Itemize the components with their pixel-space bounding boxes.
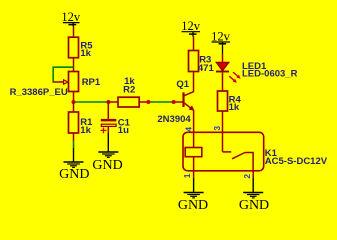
power terminal 12v (left) bbox=[61, 10, 81, 27]
power terminal 12v (middle) bbox=[181, 19, 201, 36]
wire R4 to relay pin 3 bbox=[222, 111, 224, 152]
power terminal 12v (right) bbox=[211, 30, 231, 54]
ground (relay pin 1) bbox=[178, 178, 208, 213]
ground (C1) bbox=[92, 133, 122, 173]
svg-text:4: 4 bbox=[183, 127, 193, 132]
svg-text:GND: GND bbox=[59, 167, 89, 182]
wire 12v to LED1 bbox=[222, 54, 224, 63]
resistor R2 bbox=[118, 76, 139, 107]
svg-text:GND: GND bbox=[92, 158, 122, 173]
svg-text:2N3904: 2N3904 bbox=[157, 114, 191, 125]
resistor R4 bbox=[218, 91, 242, 113]
svg-text:RP1: RP1 bbox=[82, 77, 101, 88]
LED LED1 bbox=[216, 61, 298, 83]
wire main horizontal net bbox=[74, 101, 184, 103]
transistor Q1 bbox=[157, 72, 194, 126]
ground (relay pin 2) bbox=[239, 178, 269, 213]
ground (R1) bbox=[59, 148, 89, 182]
wire C1 to ground bbox=[107, 126, 109, 133]
svg-text:12v: 12v bbox=[61, 10, 81, 24]
resistor R3 bbox=[189, 51, 215, 75]
wire R5 to RP1 bbox=[73, 58, 75, 72]
wire relay pin 2 to ground bbox=[252, 171, 254, 178]
wire R1 to ground bbox=[73, 133, 75, 148]
svg-text:R2: R2 bbox=[123, 84, 135, 95]
svg-text:1: 1 bbox=[182, 173, 192, 178]
svg-text:1u: 1u bbox=[118, 125, 129, 136]
resistor R1 bbox=[69, 102, 94, 136]
svg-text:AC5-S-DC12V: AC5-S-DC12V bbox=[265, 156, 328, 167]
resistor R5 bbox=[69, 37, 94, 59]
svg-text:1k: 1k bbox=[80, 48, 91, 59]
svg-text:GND: GND bbox=[239, 198, 269, 213]
node A junction dots bbox=[72, 100, 176, 104]
wire LED1 to R4 bbox=[222, 72, 224, 91]
svg-text:LED-0603_R: LED-0603_R bbox=[242, 69, 298, 80]
wire relay pin 1 to ground bbox=[193, 171, 195, 178]
svg-text:471: 471 bbox=[198, 63, 215, 74]
relay K1 bbox=[183, 110, 328, 171]
potentiometer RP1 bbox=[10, 72, 101, 99]
svg-text:1k: 1k bbox=[229, 102, 240, 113]
svg-text:1k: 1k bbox=[80, 125, 91, 136]
wire 12v to R3 bbox=[193, 37, 195, 51]
svg-text:R_3386P_EU: R_3386P_EU bbox=[10, 87, 68, 98]
svg-text:3: 3 bbox=[212, 126, 222, 131]
svg-text:Q1: Q1 bbox=[176, 79, 189, 90]
svg-text:GND: GND bbox=[178, 198, 208, 213]
svg-text:2: 2 bbox=[242, 174, 252, 179]
wire RP1 to node A bbox=[73, 92, 75, 103]
wire wiper loop (green) bbox=[53, 67, 73, 82]
capacitor C1 bbox=[101, 102, 131, 136]
wire 12v to R5 bbox=[73, 27, 75, 38]
